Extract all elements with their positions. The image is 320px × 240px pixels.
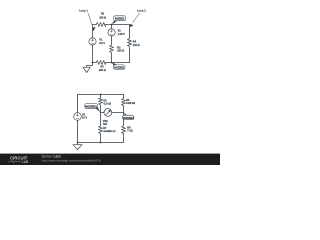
label Loop 1 bbox=[79, 9, 95, 32]
junction middle branch top bbox=[111, 24, 113, 26]
resistor R7 bbox=[99, 126, 103, 134]
resistor R4 bbox=[128, 39, 132, 47]
svg-text:7 kΩ: 7 kΩ bbox=[127, 129, 132, 132]
label R8 value bbox=[127, 126, 132, 132]
node flag NODE1 bbox=[112, 16, 126, 24]
label V2 value bbox=[118, 30, 126, 36]
svg-text:LAB: LAB bbox=[22, 159, 28, 164]
junction middle branch bottom bbox=[111, 62, 113, 64]
svg-text:1.08 V: 1.08 V bbox=[118, 33, 126, 36]
junction middle branch bottom (measured circuit) bbox=[100, 142, 102, 144]
label VM1 value bbox=[103, 120, 109, 126]
svg-text:NODEB4: NODEB4 bbox=[122, 116, 134, 120]
wire bottom rail of loop circuit bbox=[93, 62, 130, 64]
junction ground (measured circuit) bbox=[77, 142, 79, 144]
wire meter link bbox=[101, 112, 124, 114]
label R5 value bbox=[103, 99, 111, 105]
voltage source V2 bbox=[108, 29, 115, 36]
voltmeter VM1 bbox=[104, 109, 112, 117]
wire middle branch R5/R7 bbox=[100, 95, 102, 143]
node flag NODEB1 bbox=[85, 103, 101, 112]
node flag NODEB4 bbox=[122, 113, 134, 120]
wire left branch V3 bbox=[77, 95, 79, 143]
label V1 value bbox=[99, 39, 105, 45]
resistor R5 bbox=[99, 98, 103, 105]
label R2 value bbox=[117, 46, 124, 52]
resistor R2 bbox=[110, 45, 114, 53]
svg-text:Loop 1: Loop 1 bbox=[79, 9, 88, 13]
svg-text:200 Ω: 200 Ω bbox=[117, 50, 124, 53]
label R1 value bbox=[99, 13, 106, 20]
svg-text:NODE2: NODE2 bbox=[114, 66, 124, 70]
svg-text:Loop 2: Loop 2 bbox=[137, 9, 146, 13]
voltage source V3 bbox=[74, 113, 82, 121]
footer bar bbox=[0, 154, 220, 165]
wire right branch R4 bbox=[129, 25, 131, 63]
junction ground (loop circuit) bbox=[92, 62, 94, 64]
svg-text:6.98 kΩ: 6.98 kΩ bbox=[126, 102, 135, 105]
svg-text:NODE1: NODE1 bbox=[115, 17, 125, 21]
label V3 value bbox=[82, 113, 87, 119]
CircuitLab logo bbox=[8, 156, 29, 164]
resistor R1 bbox=[96, 23, 106, 27]
wire top rail of measured circuit bbox=[78, 94, 124, 96]
svg-text:200 Ω: 200 Ω bbox=[99, 69, 106, 72]
svg-text:100 Ω: 100 Ω bbox=[133, 44, 140, 47]
resistor R6 bbox=[122, 98, 126, 105]
label R4 value bbox=[133, 41, 140, 47]
svg-text:4.2 kΩ: 4.2 kΩ bbox=[103, 102, 111, 105]
junction middle branch top (measured circuit) bbox=[100, 94, 102, 96]
svg-text:variable Ω: variable Ω bbox=[103, 130, 115, 133]
voltage source V1 bbox=[89, 38, 96, 45]
label R6 value bbox=[126, 99, 135, 105]
svg-text:9.0 V: 9.0 V bbox=[99, 42, 105, 45]
ground (measured circuit) bbox=[73, 143, 82, 150]
label R7 value bbox=[103, 127, 115, 133]
wire top rail of loop circuit bbox=[93, 24, 130, 26]
label R3 value bbox=[99, 65, 106, 72]
wire left branch V1 bbox=[92, 25, 94, 63]
svg-text:N/A: N/A bbox=[103, 123, 108, 126]
svg-text:100 Ω: 100 Ω bbox=[99, 17, 106, 20]
wire bottom rail of measured circuit bbox=[78, 142, 124, 144]
ground (loop circuit) bbox=[83, 63, 93, 73]
resistor R8 bbox=[122, 126, 126, 134]
wire middle branch V2/R2 bbox=[111, 25, 113, 63]
label Loop 2 bbox=[129, 9, 146, 27]
svg-text:NODEB1: NODEB1 bbox=[85, 104, 97, 108]
svg-text:10 V: 10 V bbox=[82, 117, 87, 120]
resistor R3 bbox=[96, 61, 107, 65]
wire right branch R6/R8 bbox=[123, 95, 125, 143]
svg-text:http://www.circuitlab.com/circ: http://www.circuitlab.com/circuit/pnq4z5… bbox=[42, 159, 101, 163]
node flag NODE2 bbox=[112, 62, 125, 69]
